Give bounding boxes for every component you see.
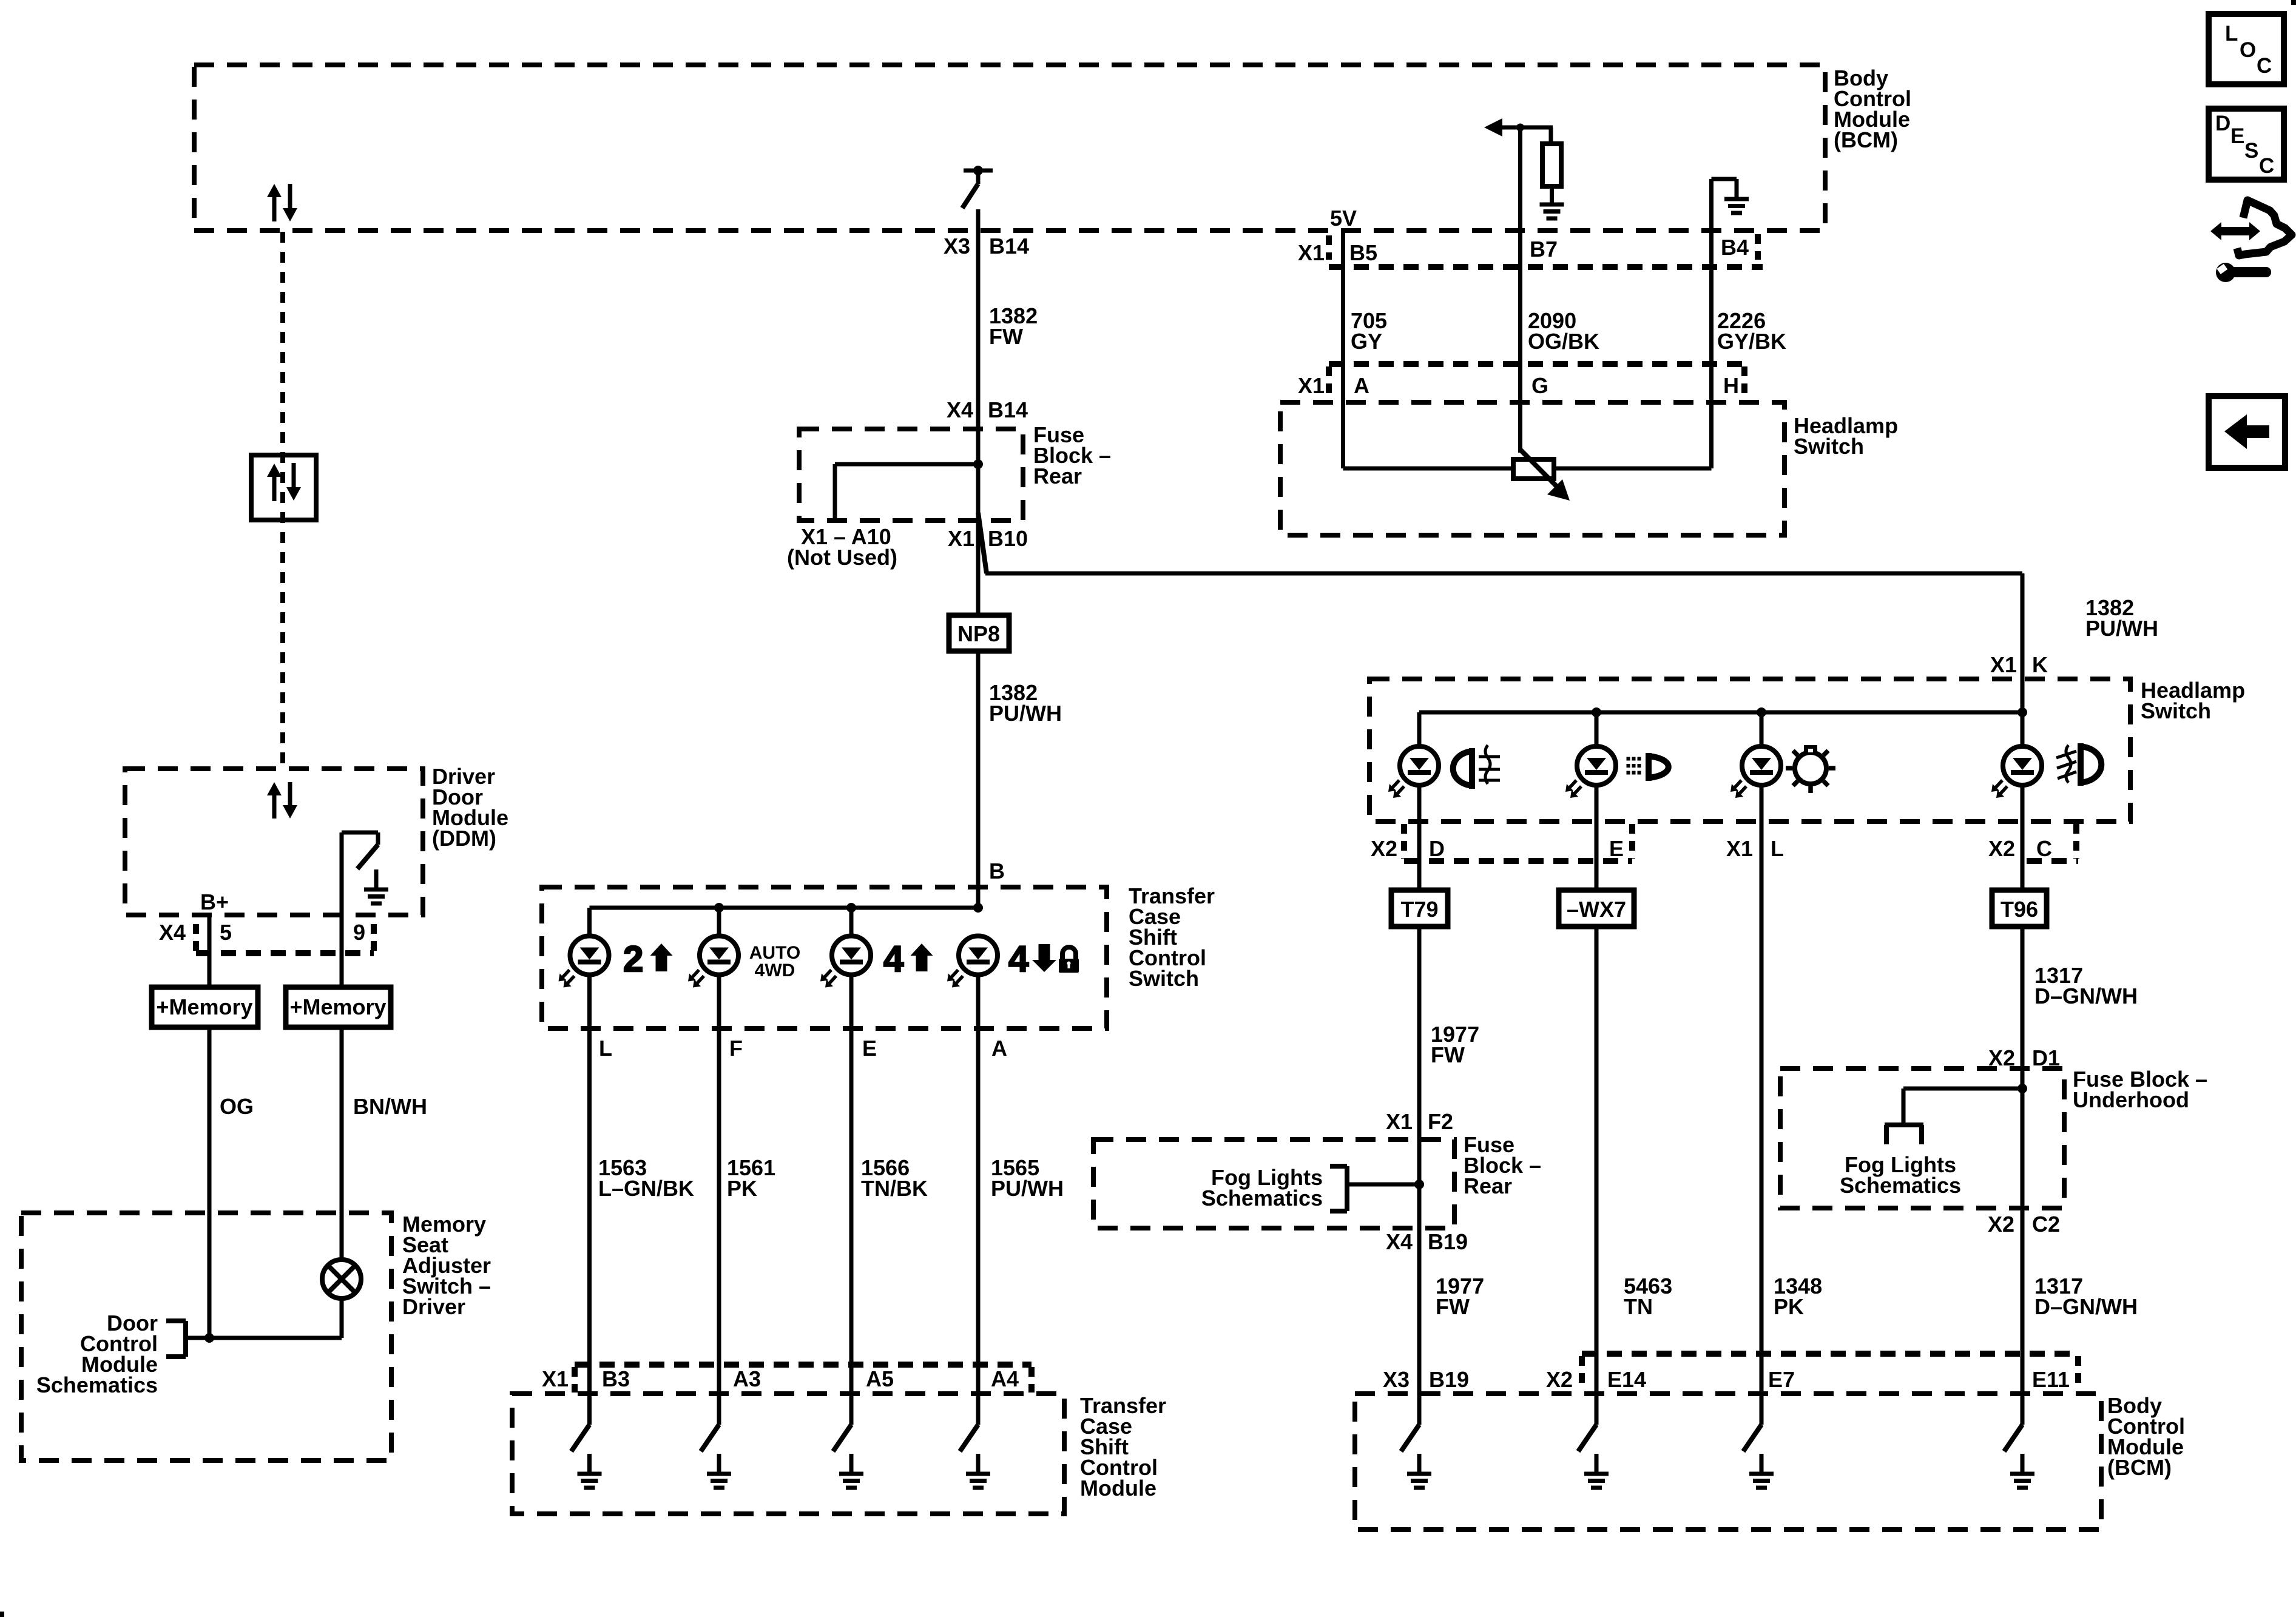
switch S (BCM internal, main feed): [962, 166, 993, 208]
svg-text:5V: 5V: [1330, 206, 1357, 231]
junction dot OG: [204, 1333, 214, 1343]
LED park bulb: [1730, 746, 1781, 798]
svg-text:B7: B7: [1530, 237, 1558, 262]
icon harness arrow: [2210, 222, 2260, 240]
LED rear fog: [1388, 746, 1439, 798]
ground in DDM: [364, 869, 388, 903]
junction dot TC3: [973, 903, 983, 913]
svg-text:X2: X2: [1988, 836, 2015, 861]
switch+ground E11: [2004, 1425, 2034, 1488]
junction dot TC2: [846, 903, 856, 913]
junction dot TC1: [714, 903, 724, 913]
switch+ground B3: [572, 1425, 602, 1488]
svg-text:E11: E11: [2032, 1367, 2070, 1392]
svg-text:(DDM): (DDM): [432, 826, 496, 851]
wire bracket to lamp: [186, 1336, 342, 1340]
svg-text:X2: X2: [1546, 1367, 1573, 1392]
svg-text:L–GN/BK: L–GN/BK: [598, 1176, 694, 1201]
icon bulb with rays: [1786, 745, 1835, 793]
svg-text:B+: B+: [200, 890, 229, 914]
wire D to T79: [1417, 783, 1422, 890]
module box: Fuse Block - Underhood: [1780, 1068, 2064, 1208]
corner mark top right: [2291, 0, 2296, 5]
junction dot HS3: [2017, 707, 2027, 717]
svg-text:C2: C2: [2032, 1212, 2060, 1237]
svg-text:TN/BK: TN/BK: [861, 1176, 928, 1201]
wire fog tap: [1347, 1183, 1419, 1187]
option box NP8: [949, 615, 1009, 651]
component box +Memory (left): [152, 987, 258, 1027]
connector row X4 5/9 dotted: [196, 924, 374, 953]
svg-text:GY/BK: GY/BK: [1717, 329, 1786, 354]
svg-text:Switch: Switch: [1129, 966, 1199, 991]
fork symbol (fog feed): [1885, 1125, 1923, 1144]
connector row X1 B5/B7/B4 dotted: [1329, 234, 1763, 267]
wire lamp to junction: [340, 1298, 344, 1338]
svg-text:O: O: [2240, 38, 2256, 62]
junction dot underhood: [2017, 1084, 2027, 1093]
module box: Transfer Case Shift Control Module: [512, 1394, 1064, 1514]
wire LED stub E: [849, 908, 854, 938]
wire L column: [587, 973, 592, 1425]
connector row X1 B3/A3/A5/A4 dotted: [575, 1365, 1032, 1393]
icon box back arrow: [2209, 396, 2285, 468]
svg-text:E: E: [2230, 124, 2244, 148]
svg-text:F2: F2: [1428, 1109, 1453, 1134]
wire stub L: [1760, 712, 1764, 749]
potentiometer body: [1513, 459, 1554, 479]
wire 2090 OG/BK (B7-G): [1518, 127, 1522, 453]
wire 1382 FW: [976, 209, 981, 615]
wire resistor to ground: [1550, 185, 1554, 186]
svg-text:PU/WH: PU/WH: [989, 701, 1062, 726]
svg-text:X1: X1: [542, 1366, 569, 1391]
module box: Headlamp Switch (dimmer): [1280, 402, 1784, 535]
wire B+ (pin 5): [208, 915, 212, 987]
svg-text:X1: X1: [1386, 1109, 1413, 1134]
data arrows in BCM: [267, 184, 297, 221]
switch+ground A5: [833, 1425, 863, 1488]
svg-text:X4: X4: [159, 920, 186, 945]
connector tick X2 C: [2027, 824, 2078, 861]
svg-text:E: E: [862, 1036, 877, 1061]
svg-text:9: 9: [353, 920, 365, 945]
svg-text:FW: FW: [1431, 1042, 1465, 1067]
wire headlamp bus: [1419, 711, 2022, 715]
svg-text:E: E: [1609, 836, 1624, 861]
wire stub E: [1595, 712, 1599, 749]
svg-text:A: A: [1354, 373, 1369, 398]
switch+ground E7: [1743, 1425, 1774, 1488]
wire A column: [976, 973, 981, 1425]
icon front fog lamp: [2056, 743, 2101, 786]
LED indicator AUTO 4WD: [688, 936, 738, 988]
svg-text:B: B: [989, 859, 1005, 883]
wire 1317 upper: [2021, 927, 2025, 1068]
potentiometer wiper arrow: [1521, 450, 1570, 501]
wire BN/WH: [340, 1027, 344, 1261]
wire 1977 FW (upper): [1417, 927, 1422, 1139]
wire fuse A10 hook: [835, 464, 978, 519]
svg-text:Driver: Driver: [402, 1294, 465, 1319]
LED indicator 4HI: [820, 936, 871, 988]
svg-text:Module: Module: [1080, 1476, 1156, 1501]
svg-text:Rear: Rear: [1033, 464, 1082, 488]
svg-text:OG/BK: OG/BK: [1528, 329, 1599, 354]
wire E column: [849, 973, 854, 1425]
icon harness outline: [2237, 200, 2292, 255]
wire to headlamp switch K: [985, 573, 2022, 712]
LED indicator 4LO: [947, 936, 998, 988]
wire 705 GY (B5-A): [1341, 229, 1345, 468]
svg-text:K: K: [2032, 652, 2048, 677]
svg-text:+Memory: +Memory: [289, 994, 386, 1019]
svg-text:PK: PK: [1774, 1294, 1804, 1319]
module box: Driver Door Module (DDM): [125, 769, 423, 915]
wire 2226 GY/BK (B4-H): [1709, 179, 1714, 468]
icon box DESC: [2209, 109, 2284, 180]
connector row X2 D/E dotted: [1404, 824, 1632, 861]
svg-text:G: G: [1531, 373, 1548, 398]
data line BCM-DDM (dashed): [280, 232, 285, 769]
svg-text:E7: E7: [1768, 1367, 1795, 1392]
option box T79: [1391, 890, 1448, 927]
svg-text:C: C: [2259, 154, 2274, 178]
svg-text:X1: X1: [1298, 240, 1325, 265]
svg-text:D–GN/WH: D–GN/WH: [2034, 1294, 2138, 1319]
svg-text:B10: B10: [988, 526, 1028, 551]
svg-text:Switch: Switch: [2141, 698, 2211, 723]
svg-text:B14: B14: [989, 234, 1029, 258]
LED indicator 2HI: [559, 936, 609, 988]
svg-text:X3: X3: [1383, 1367, 1410, 1392]
data arrows in box: [267, 463, 301, 501]
wire 1382 PU/WH (center): [976, 651, 981, 908]
svg-text:A4: A4: [991, 1366, 1019, 1391]
svg-text:X2: X2: [1988, 1212, 2014, 1237]
module box: Body Control Module (BCM) top: [194, 65, 1825, 231]
ground G2 hook (B4 line): [1712, 179, 1749, 213]
module box: Body Control Module (BCM) bottom: [1355, 1394, 2101, 1530]
svg-text:Schematics: Schematics: [1201, 1186, 1323, 1210]
LED front fog: [1991, 746, 2042, 798]
wire stub D: [1417, 712, 1422, 749]
svg-text:X1: X1: [1726, 836, 1753, 861]
svg-text:FW: FW: [1436, 1294, 1470, 1319]
svg-text:X1: X1: [948, 526, 974, 551]
svg-text:BN/WH: BN/WH: [353, 1094, 427, 1119]
wire LED stub F: [717, 908, 721, 938]
svg-text:A: A: [991, 1036, 1007, 1061]
svg-text:4: 4: [1008, 939, 1029, 979]
svg-text:X1: X1: [1298, 373, 1325, 398]
wire pin 9: [340, 832, 344, 987]
svg-text:C: C: [2257, 54, 2272, 78]
module box: Memory Seat Adjuster Switch - Driver: [21, 1213, 391, 1460]
svg-text:4WD: 4WD: [755, 960, 795, 981]
junction dot fog: [1414, 1180, 1424, 1189]
svg-text:L: L: [1771, 836, 1784, 861]
icon rear fog lamp: [1453, 745, 1500, 789]
option box T96: [1992, 890, 2047, 927]
svg-text:4: 4: [883, 939, 904, 979]
wire resistor feed: [1549, 127, 1553, 144]
svg-text:B4: B4: [1721, 235, 1749, 260]
svg-text:X3: X3: [944, 234, 970, 258]
wire 5463 TN: [1595, 927, 1599, 1425]
wire fog tap (underhood): [1903, 1089, 2022, 1125]
svg-text:(BCM): (BCM): [1834, 127, 1898, 152]
wire pot bus: [1343, 467, 1712, 471]
junction dot fuse: [973, 459, 983, 469]
svg-text:PU/WH: PU/WH: [2085, 616, 2158, 641]
wire branch diagonal: [978, 513, 987, 573]
svg-text:2: 2: [623, 939, 643, 979]
data arrows in DDM: [267, 782, 297, 819]
svg-text:D–GN/WH: D–GN/WH: [2034, 984, 2138, 1008]
svg-text:X1: X1: [1990, 652, 2017, 677]
svg-text:PK: PK: [727, 1176, 757, 1201]
switch+ground E14: [1578, 1425, 1609, 1488]
svg-text:B19: B19: [1428, 1229, 1468, 1254]
wire through fuse (fog): [1417, 1139, 1422, 1425]
svg-text:D: D: [1429, 836, 1445, 861]
wire L column long: [1760, 783, 1764, 1425]
resistor R (BCM pull-up): [1542, 144, 1561, 186]
svg-text:PU/WH: PU/WH: [991, 1176, 1064, 1201]
svg-text:–WX7: –WX7: [1567, 897, 1626, 922]
module box: Transfer Case Shift Control Switch: [542, 887, 1107, 1028]
LED parking DRL: [1565, 746, 1616, 798]
connector row X1 A/G/H dotted: [1329, 364, 1748, 394]
data transceiver box: [251, 455, 316, 520]
option box -WX7: [1559, 890, 1634, 927]
svg-text:X4: X4: [947, 397, 973, 422]
switch+ground A4: [960, 1425, 990, 1488]
svg-text:E14: E14: [1607, 1367, 1646, 1392]
svg-text:+Memory: +Memory: [156, 994, 252, 1019]
wire E to WX7: [1595, 783, 1599, 890]
svg-text:Schematics: Schematics: [1840, 1173, 1961, 1198]
svg-text:5: 5: [220, 920, 232, 945]
svg-text:A5: A5: [866, 1366, 894, 1391]
module box: Fuse Block - Rear (top): [799, 429, 1023, 521]
svg-text:NP8: NP8: [957, 621, 1000, 646]
svg-text:A3: A3: [733, 1366, 761, 1391]
DDM door switch: [342, 832, 378, 869]
module box: Fuse Block - Rear (fog): [1093, 1139, 1454, 1228]
svg-text:TN: TN: [1624, 1294, 1653, 1319]
svg-text:(Not Used): (Not Used): [787, 545, 897, 570]
svg-text:H: H: [1723, 373, 1739, 398]
component box +Memory (right): [286, 987, 391, 1027]
svg-text:T79: T79: [1400, 897, 1438, 922]
svg-text:B14: B14: [988, 397, 1028, 422]
svg-text:Schematics: Schematics: [36, 1372, 158, 1397]
svg-text:Rear: Rear: [1464, 1173, 1512, 1198]
svg-text:X2: X2: [1371, 836, 1397, 861]
switch+ground A3: [701, 1425, 731, 1488]
wire F column: [717, 973, 721, 1425]
svg-text:F: F: [729, 1036, 743, 1061]
icon wrench: [2216, 263, 2271, 282]
svg-text:D: D: [2215, 112, 2230, 135]
wire stub C: [2021, 712, 2025, 749]
wire TC bus: [590, 906, 979, 910]
svg-text:(BCM): (BCM): [2107, 1455, 2172, 1480]
signal arrow (BCM internal, to B7): [1484, 118, 1553, 137]
module box: Headlamp Switch (selector): [1369, 679, 2130, 822]
wire through underhood fuse: [2021, 1068, 2025, 1425]
lamp (memory seat illumination): [322, 1260, 361, 1298]
svg-text:B5: B5: [1349, 240, 1377, 265]
svg-text:B19: B19: [1429, 1367, 1469, 1392]
junction dot on B7 line: [1516, 124, 1524, 132]
junction dot HS1: [1592, 707, 1601, 717]
ground G1 (below resistor): [1540, 184, 1564, 218]
off-page bracket (fog left): [1330, 1166, 1347, 1211]
svg-text:Switch: Switch: [1794, 434, 1864, 459]
wire C to T96: [2021, 783, 2025, 890]
wire OG: [208, 1027, 212, 1338]
svg-text:S: S: [2244, 139, 2258, 163]
svg-text:L: L: [599, 1036, 612, 1061]
icon box LOC: [2209, 14, 2284, 84]
svg-text:OG: OG: [220, 1094, 254, 1119]
svg-text:B3: B3: [602, 1366, 630, 1391]
off-page bracket (door control): [166, 1321, 186, 1357]
svg-text:FW: FW: [989, 324, 1023, 349]
svg-text:T96: T96: [2001, 897, 2038, 922]
switch+ground B19: [1401, 1425, 1431, 1488]
svg-text:GY: GY: [1351, 329, 1382, 354]
connector row X2 E14/E7/E11 dotted: [1582, 1354, 2078, 1389]
icon parking lamps dots: [1627, 753, 1669, 781]
junction dot HS2: [1757, 707, 1766, 717]
svg-text:Underhood: Underhood: [2073, 1087, 2189, 1112]
svg-text:X4: X4: [1386, 1229, 1413, 1254]
svg-text:L: L: [2225, 22, 2238, 46]
corner mark bottom left: [0, 1612, 4, 1617]
svg-text:C: C: [2036, 836, 2052, 861]
wire LED stub L: [587, 908, 592, 938]
